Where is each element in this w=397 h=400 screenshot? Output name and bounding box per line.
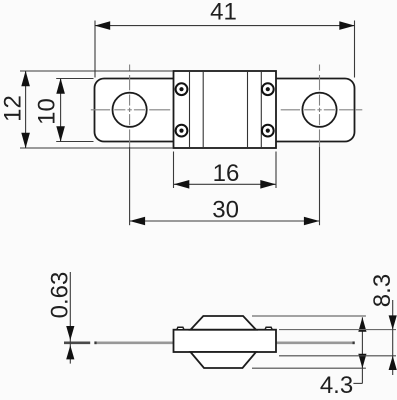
dimension 4.3 arrow top — [358, 317, 366, 332]
fuse center body (top view) — [174, 71, 277, 148]
dimension 41 line — [95, 25, 355, 27]
vertical centerline left hole / extension for 30 — [129, 65, 131, 71]
dimension 16 extension line left — [173, 152, 175, 189]
body inner line 3 — [247, 72, 249, 147]
side view blade right tip cap — [353, 341, 355, 344]
dimension 0.63 arrow upper — [66, 326, 74, 340]
body inner line 1 — [189, 72, 191, 147]
side view base band — [174, 330, 277, 352]
dimension 10 arrow bottom — [56, 126, 65, 142]
side view housing bottom — [191, 352, 257, 368]
dimension 10 extension line top — [56, 78, 93, 80]
dimension 12 extension line top — [20, 70, 173, 72]
dimension 10 line — [60, 79, 62, 142]
dimension 4.3 arrow bottom — [358, 354, 366, 369]
side view blade right segment — [276, 341, 355, 344]
dimension 8.3 arrow upper — [389, 315, 397, 329]
dimension 4.3 leader — [353, 382, 362, 384]
dimension 0.63 blade surface extension bar — [64, 341, 90, 344]
dimension 4.3 line — [361, 317, 363, 383]
rivet bottom-right — [262, 125, 274, 137]
svg-text:0.63: 0.63 — [46, 272, 73, 319]
body inner line 4 — [260, 72, 262, 147]
dimension 41 extension line left — [94, 21, 96, 78]
svg-text:41: 41 — [210, 0, 237, 25]
dimension 41 arrow right — [339, 21, 355, 30]
dimension 16 arrow left — [174, 180, 190, 189]
dimension 8.3 extension line bottom — [279, 355, 396, 357]
dimension 12 arrow top — [21, 71, 30, 87]
dimension 4.3 extension line top — [252, 315, 366, 317]
side view blade left tip cap — [94, 341, 96, 344]
dimension 0.63 arrow lower — [66, 345, 74, 359]
rivet top-right — [262, 83, 274, 95]
dimension 30 arrow right — [304, 217, 320, 226]
mounting hole right — [302, 93, 336, 127]
dimension 41 extension line right — [354, 21, 356, 78]
rivet top-left — [176, 83, 188, 95]
dimension 16 extension line right — [275, 152, 277, 189]
dimension 30 line — [130, 220, 320, 222]
dimension 10 arrow top — [56, 78, 65, 94]
side view housing top — [191, 316, 257, 330]
dimension 16 arrow right — [260, 180, 276, 189]
dimension 16 line — [174, 183, 276, 185]
right tab (top view) — [269, 79, 355, 142]
dimension 12 extension line bottom — [20, 147, 173, 149]
svg-text:10: 10 — [34, 98, 61, 125]
dimension 8.3 extension line top — [279, 329, 396, 331]
dimension 30 arrow left — [130, 217, 146, 226]
dimension 0.63 line — [69, 272, 71, 364]
side view blade left segment — [94, 341, 173, 344]
svg-text:30: 30 — [212, 197, 239, 224]
dimension 12 line — [25, 71, 27, 148]
svg-text:8.3: 8.3 — [369, 274, 396, 307]
side view rivet boss left — [177, 327, 184, 330]
dimension 8.3 line — [392, 300, 394, 375]
rivet bottom-left — [176, 125, 188, 137]
dimension 4.3 extension line bottom — [252, 367, 366, 369]
mounting hole left — [113, 93, 147, 127]
dimension 10 extension line bottom — [56, 141, 93, 143]
svg-text:16: 16 — [213, 160, 240, 187]
dimension 41 arrow left — [95, 21, 111, 30]
left tab (top view) — [95, 79, 181, 142]
dimension 8.3 arrow lower — [389, 356, 397, 370]
vertical centerline right hole / extension for 30 — [319, 65, 321, 71]
dimension 12 arrow bottom — [21, 133, 30, 149]
side view rivet boss right — [265, 327, 272, 330]
horizontal centerline through holes — [91, 109, 110, 111]
svg-text:12: 12 — [0, 95, 27, 122]
svg-text:4.3: 4.3 — [320, 372, 353, 399]
body inner line 2 — [202, 72, 204, 147]
